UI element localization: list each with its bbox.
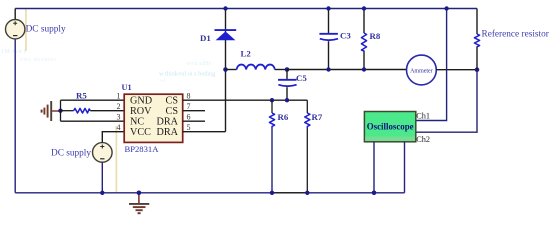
svg-text:3: 3	[117, 113, 121, 122]
svg-text:VCC: VCC	[130, 127, 151, 138]
svg-text:L2: L2	[241, 49, 252, 59]
svg-text:4: 4	[117, 123, 121, 132]
node R5 input junction	[58, 109, 62, 113]
svg-text:R5: R5	[76, 90, 87, 100]
wire V2 top to pin4	[102, 132, 124, 143]
wire ammeter to reference node	[436, 69, 477, 71]
svg-text:CS: CS	[166, 106, 179, 117]
svg-text:R6: R6	[278, 112, 289, 122]
wire top rail	[15, 8, 477, 10]
ground G2 (bottom)	[129, 193, 149, 213]
resistor R8	[361, 9, 366, 70]
svg-text:Reference resistor: Reference resistor	[482, 28, 550, 39]
junction C5 bottom	[285, 98, 289, 102]
wire scope left leg	[373, 142, 375, 193]
svg-text:GND: GND	[130, 96, 152, 107]
junction R8 top	[362, 6, 366, 10]
svg-text:7: 7	[187, 102, 191, 111]
svg-text:6: 6	[187, 113, 191, 122]
resistor R7	[305, 100, 310, 193]
wire left vertical (V1 to bottom rail)	[14, 39, 16, 193]
wire bottom rail dark segment	[272, 192, 308, 194]
svg-text:5: 5	[187, 123, 191, 132]
wire drain column (top rail to pin5)	[225, 9, 227, 132]
junction L2 tap	[223, 67, 228, 72]
inductor L2	[237, 65, 275, 70]
svg-text:D1: D1	[200, 33, 211, 43]
wire pin2 right lead	[90, 110, 124, 112]
reference resistor	[474, 9, 479, 70]
svg-text:DRA: DRA	[156, 117, 178, 128]
junction drain column / top rail	[223, 6, 227, 10]
svg-text:CS: CS	[166, 96, 179, 107]
svg-text:DC supply: DC supply	[26, 24, 66, 34]
junction L2 output	[285, 67, 290, 72]
svg-text:R7: R7	[312, 112, 323, 122]
capacitor C5	[278, 70, 297, 101]
IC U1 BP2831A	[124, 94, 183, 142]
wire V2 bottom to rail	[101, 162, 103, 193]
wire pin3	[61, 120, 125, 122]
DC supply V2	[93, 143, 113, 163]
wire pin5 to drain column	[183, 131, 226, 133]
resistor R5	[74, 108, 91, 113]
wire L2 right lead	[275, 69, 287, 71]
junction V2-rail	[100, 191, 104, 195]
svg-text:BP2831A: BP2831A	[125, 144, 160, 154]
svg-text:DRA: DRA	[156, 127, 178, 138]
svg-text:wvst sdHe: wvst sdHe	[186, 61, 212, 67]
svg-text:w thinkvul oi s heding: w thinkvul oi s heding	[159, 71, 216, 78]
ground G1 (left, rotated)	[42, 101, 58, 121]
wire scope right leg	[404, 142, 406, 193]
wire pin6 stub	[183, 120, 205, 122]
svg-text:2: 2	[117, 102, 121, 111]
svg-text:NC: NC	[130, 117, 144, 128]
capacitor C3	[319, 9, 338, 70]
svg-text:ROV: ROV	[130, 106, 152, 117]
wire pin7 stub	[183, 110, 205, 112]
watermark tan line mid	[116, 126, 118, 192]
svg-text:Ammeter: Ammeter	[410, 68, 433, 74]
svg-text:8: 8	[187, 92, 191, 101]
DC supply V1	[6, 20, 25, 39]
svg-text:DC supply: DC supply	[51, 149, 91, 159]
wire left vertical (top rail to DC supply V1)	[14, 9, 16, 20]
svg-text:wl: wl	[160, 78, 166, 84]
oscilloscope	[364, 112, 415, 142]
junction C3 top	[326, 6, 330, 10]
svg-text:Ch2: Ch2	[416, 135, 430, 144]
junction C3 bottom	[326, 67, 330, 71]
svg-text:vws dovnluc: vws dovnluc	[20, 57, 57, 63]
wire Ch1 column	[416, 9, 447, 121]
wire ground to node	[58, 110, 61, 112]
junction Ch1 top	[444, 6, 448, 10]
wire L2 left lead	[226, 69, 237, 71]
watermark tan line left	[25, 8, 27, 51]
svg-text:C5: C5	[296, 73, 307, 83]
diode D1	[215, 30, 237, 40]
wire pin8 node line	[183, 99, 308, 101]
svg-text:R8: R8	[370, 31, 381, 41]
svg-text:1: 1	[117, 92, 121, 101]
svg-text:1M-tvd t: 1M-tvd t	[1, 49, 26, 55]
junction R8 bottom	[362, 67, 366, 71]
svg-text:Ch1: Ch1	[416, 112, 430, 121]
junction R6 bottom	[270, 191, 274, 195]
wire Ch2 column	[416, 70, 477, 133]
wire bottom rail	[15, 192, 404, 194]
ammeter U2	[407, 55, 437, 85]
junction R6 top	[270, 98, 274, 102]
junction reference node	[475, 67, 480, 72]
junction scope left leg	[372, 191, 377, 196]
wire pin2 left lead	[61, 110, 74, 112]
wire node A line (L2 out to ammeter)	[287, 69, 407, 71]
junction ground-rail	[137, 191, 142, 196]
resistor R6	[269, 100, 274, 193]
svg-text:Oscilloscope: Oscilloscope	[367, 121, 414, 131]
junction R7 bottom	[305, 191, 309, 195]
svg-text:C3: C3	[340, 30, 351, 40]
wire pins1-3 left loop vertical	[60, 100, 62, 121]
wire pin1	[61, 99, 125, 101]
svg-text:U1: U1	[122, 83, 132, 92]
